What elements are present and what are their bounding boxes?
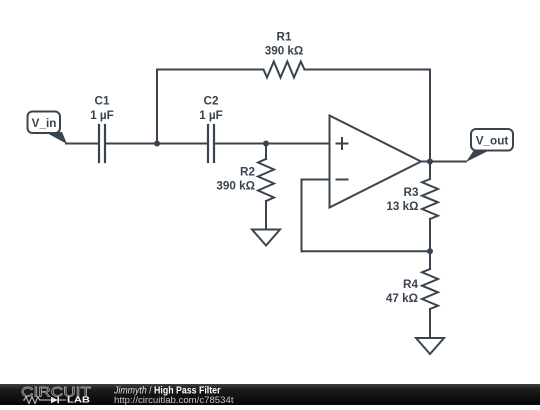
wire bbox=[215, 143, 330, 145]
wire bbox=[265, 201, 267, 230]
svg-text:R4: R4 bbox=[403, 278, 418, 291]
capacitor C2 bbox=[199, 95, 223, 163]
wire bbox=[302, 250, 431, 252]
wire bbox=[301, 180, 303, 252]
wire bbox=[429, 162, 431, 180]
svg-text:V_in: V_in bbox=[32, 117, 57, 130]
svg-text:47 kΩ: 47 kΩ bbox=[386, 292, 418, 305]
wire bbox=[429, 219, 431, 251]
svg-text:V_out: V_out bbox=[476, 135, 509, 148]
resistor R1 bbox=[264, 31, 305, 78]
wire bbox=[156, 70, 158, 144]
wire bbox=[106, 143, 207, 145]
svg-text:LAB: LAB bbox=[67, 396, 90, 405]
svg-text:390 kΩ: 390 kΩ bbox=[265, 45, 304, 58]
ground bbox=[252, 230, 280, 246]
svg-text:R3: R3 bbox=[404, 186, 419, 199]
wire bbox=[265, 144, 267, 160]
net label V_out bbox=[466, 129, 513, 162]
wire bbox=[429, 251, 431, 269]
svg-text:R2: R2 bbox=[240, 166, 255, 179]
wire bbox=[157, 69, 264, 71]
resistor R4 bbox=[386, 269, 438, 309]
svg-text:13 kΩ: 13 kΩ bbox=[386, 200, 418, 213]
node C bbox=[427, 248, 433, 254]
svg-text:C2: C2 bbox=[204, 95, 219, 108]
CircuitLab logo bbox=[21, 384, 92, 405]
wire bbox=[429, 309, 431, 338]
svg-text:1 µF: 1 µF bbox=[90, 109, 114, 122]
capacitor C1 bbox=[90, 95, 114, 163]
op-amp U1 bbox=[330, 116, 422, 208]
svg-text:http://circuitlab.com/c78534t: http://circuitlab.com/c78534t bbox=[114, 395, 234, 405]
ground bbox=[416, 338, 444, 354]
resistor R3 bbox=[386, 179, 438, 219]
svg-text:C1: C1 bbox=[95, 95, 110, 108]
wire bbox=[66, 143, 98, 145]
wire bbox=[429, 70, 431, 162]
wire bbox=[421, 161, 466, 163]
node B bbox=[263, 141, 269, 147]
wire bbox=[305, 69, 431, 71]
footer title text bbox=[113, 386, 234, 406]
svg-text:R1: R1 bbox=[277, 31, 292, 44]
wire bbox=[302, 179, 330, 181]
node OUT bbox=[427, 159, 433, 165]
svg-text:1 µF: 1 µF bbox=[199, 109, 223, 122]
svg-text:390 kΩ: 390 kΩ bbox=[216, 180, 255, 193]
resistor R2 bbox=[216, 159, 274, 201]
node A bbox=[154, 141, 160, 147]
net label V_in bbox=[28, 112, 68, 145]
